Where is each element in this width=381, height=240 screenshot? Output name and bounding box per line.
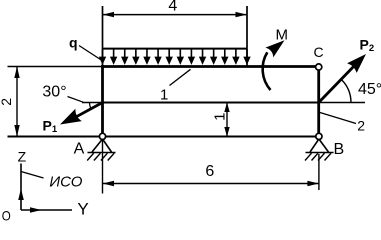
svg-text:6: 6	[205, 163, 214, 180]
dimension 2 top arrowhead	[14, 67, 19, 79]
middle line thicker segment between members	[103, 102, 319, 104]
dimension 6 extension line right	[318, 154, 320, 190]
beam 1 (top horizontal member)	[101, 65, 315, 68]
svg-text:Z: Z	[18, 148, 27, 164]
dimension 1 bottom arrowhead	[224, 127, 229, 137]
support A pin circle	[99, 133, 105, 139]
coordinate axis Z line	[20, 164, 22, 211]
dimension 2 bottom arrowhead	[14, 125, 19, 137]
svg-text:M: M	[276, 26, 289, 43]
svg-text:1: 1	[211, 113, 228, 121]
support B hatching	[305, 153, 331, 160]
dimension 2 extension line top left	[8, 66, 102, 68]
dimension 4 right arrowhead	[236, 12, 248, 17]
dimension 4 extension line right (x=247)	[246, 6, 248, 67]
svg-text:45°: 45°	[358, 81, 381, 98]
svg-text:2: 2	[0, 98, 14, 106]
svg-text:B: B	[333, 141, 344, 158]
30 degree leader line	[68, 97, 84, 103]
support B triangle	[310, 139, 329, 152]
support B pin circle	[316, 133, 322, 139]
left column (member at x=102.5)	[101, 65, 104, 134]
axis Y line	[21, 209, 72, 211]
svg-text:30°: 30°	[42, 83, 66, 100]
dimension 6 extension line left	[102, 140, 104, 194]
moment M arc	[263, 52, 271, 90]
member 2 (right vertical member)	[317, 70, 320, 135]
svg-text:ИСО: ИСО	[49, 173, 82, 190]
dimension 6 line	[103, 183, 319, 185]
support A hatching	[87, 153, 114, 160]
dimension 2 line	[16, 67, 18, 137]
force P1 shaft	[70, 103, 103, 121]
member 2 label leader	[320, 113, 356, 124]
dimension 6 left arrowhead	[103, 181, 115, 186]
middle horizontal reference line	[82, 102, 365, 104]
force P2 arrowhead	[347, 54, 366, 73]
svg-text:Y: Y	[77, 199, 88, 218]
moment M arrowhead	[265, 40, 284, 57]
support A triangle	[92, 139, 112, 152]
svg-text:1: 1	[160, 87, 168, 104]
svg-text:4: 4	[168, 0, 177, 14]
bottom horizontal line through A and B	[8, 136, 317, 138]
pin joint C circle	[316, 64, 322, 70]
dimension 4 line	[103, 14, 248, 16]
distributed load q top line	[103, 48, 248, 50]
30 degree angle arc	[89, 103, 91, 109]
dimension 4 left arrowhead	[103, 12, 115, 17]
q leader line	[79, 46, 102, 61]
force P1 arrowhead	[60, 109, 82, 125]
force P2 shaft	[319, 63, 357, 103]
svg-text:2: 2	[357, 117, 365, 133]
axis Z arrowhead	[18, 189, 24, 201]
support A ground line	[88, 152, 116, 154]
beam 1 label leader	[170, 69, 191, 85]
svg-text:C: C	[313, 44, 323, 60]
support B ground line	[306, 152, 334, 154]
distributed load arrows	[99, 50, 251, 65]
dimension 4 extension line left (x=102.5)	[102, 6, 104, 67]
dimension 1 line	[226, 103, 228, 137]
svg-text:q: q	[69, 34, 78, 50]
axis Y arrowhead	[30, 207, 42, 213]
dimension 6 right arrowhead	[307, 181, 319, 186]
dimension 1 top arrowhead	[224, 103, 229, 113]
svg-text:A: A	[74, 140, 85, 157]
svg-text:O: O	[2, 207, 11, 221]
45 degree angle arc	[341, 79, 351, 102]
ISO leader line	[21, 172, 44, 179]
